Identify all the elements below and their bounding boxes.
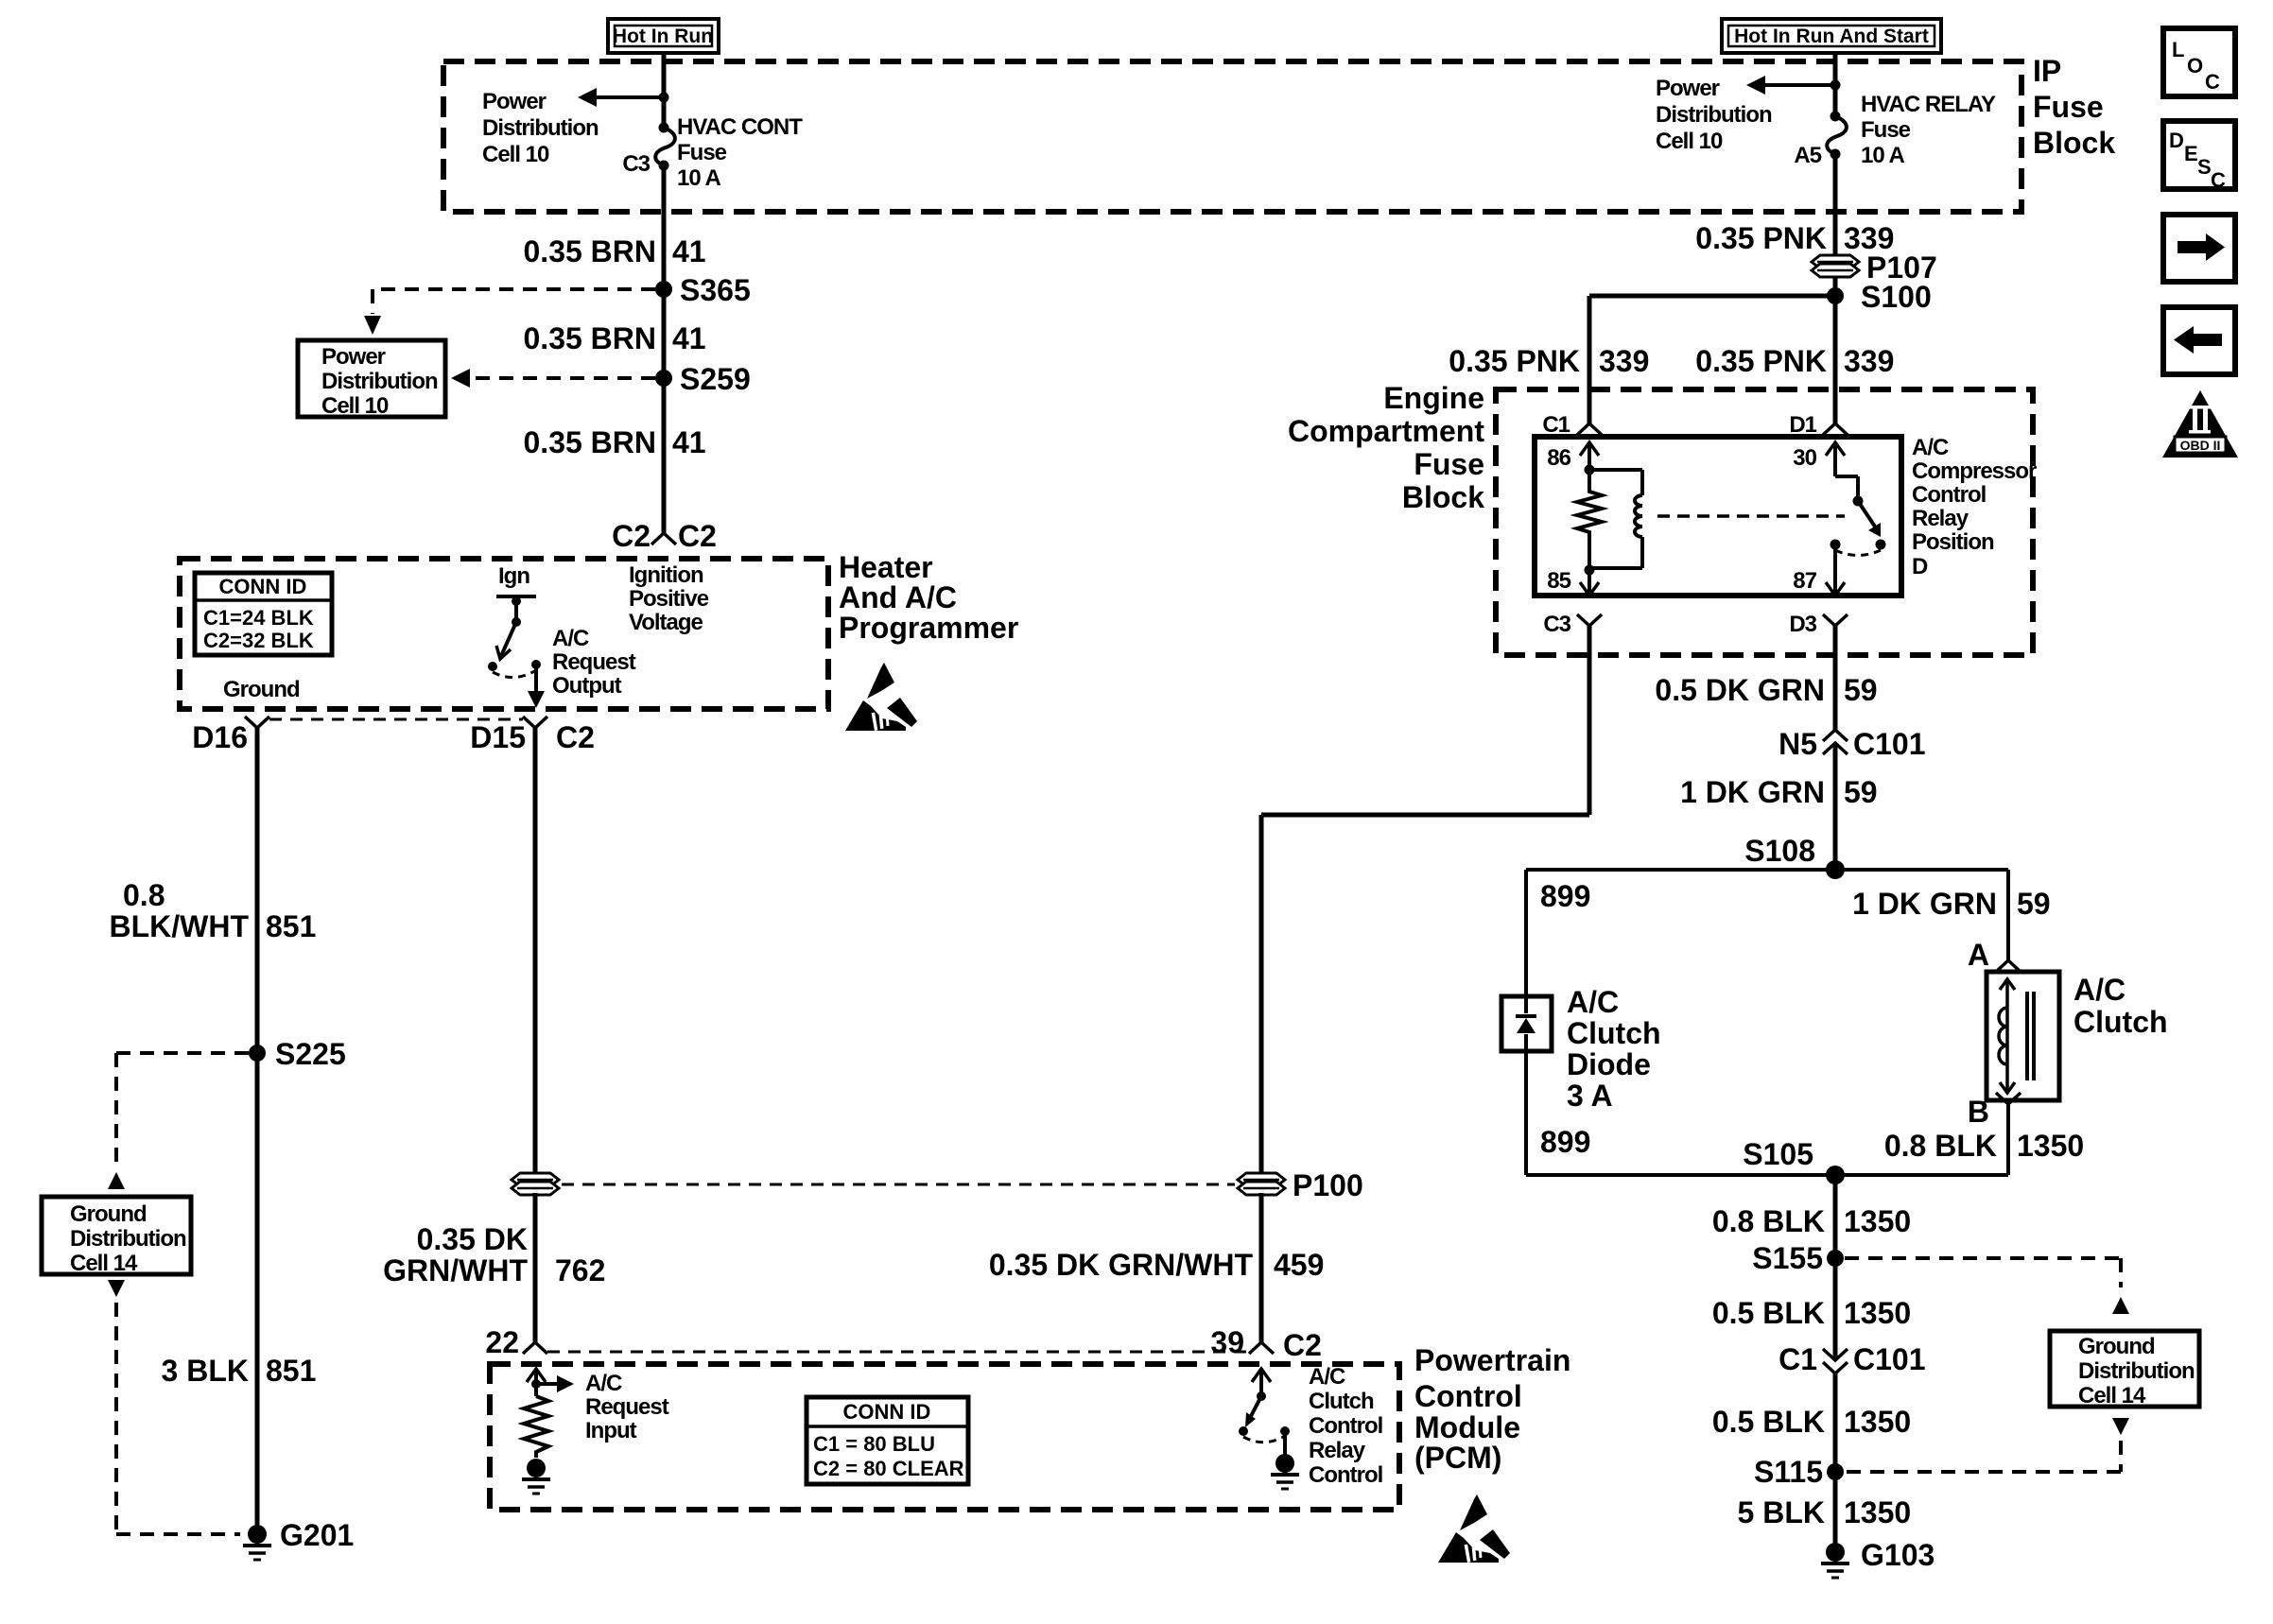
svg-text:3 A: 3 A xyxy=(1567,1079,1613,1113)
dashed connector link P100 xyxy=(562,1183,1235,1186)
label HVAC CONT Fuse 10 A xyxy=(677,114,803,191)
svg-text:Fuse: Fuse xyxy=(677,140,727,165)
svg-text:BLK/WHT: BLK/WHT xyxy=(109,909,249,943)
label 0.8 BLK/WHT 851 xyxy=(109,878,316,943)
svg-text:A/C: A/C xyxy=(1567,985,1619,1019)
svg-text:851: 851 xyxy=(266,1354,316,1388)
pin 86 xyxy=(1547,442,1599,471)
svg-text:Ignition: Ignition xyxy=(629,562,703,588)
svg-text:Distribution: Distribution xyxy=(482,115,599,141)
terminal 39 C2 xyxy=(1210,1325,1322,1362)
svg-text:GRN/WHT: GRN/WHT xyxy=(383,1253,528,1287)
svg-text:Ground: Ground xyxy=(70,1201,147,1227)
svg-text:C2 = 80 CLEAR: C2 = 80 CLEAR xyxy=(813,1457,964,1480)
label 0.8 BLK 1350 clutch xyxy=(1884,1129,2084,1163)
svg-text:Power: Power xyxy=(482,89,547,114)
svg-text:899: 899 xyxy=(1540,1125,1590,1159)
label A/C Compressor Control Relay Position D xyxy=(1912,435,2037,579)
PCM dashed box xyxy=(490,1364,1399,1510)
wire clutch loop top xyxy=(1526,868,2008,872)
label 0.5 BLK 1350 (1) xyxy=(1712,1296,1911,1330)
svg-text:D: D xyxy=(2169,129,2184,152)
svg-text:0.5 DK GRN: 0.5 DK GRN xyxy=(1655,673,1825,707)
svg-text:S365: S365 xyxy=(680,273,751,307)
terminal C1 xyxy=(1542,412,1602,438)
svg-text:0.8 BLK: 0.8 BLK xyxy=(1712,1204,1825,1238)
svg-text:1350: 1350 xyxy=(1844,1495,1911,1529)
ground A/C request input xyxy=(522,1459,550,1494)
terminal A xyxy=(1968,938,2021,972)
splice S115 xyxy=(1754,1455,1844,1489)
svg-text:D: D xyxy=(1912,554,1928,579)
connector P107 xyxy=(1812,251,1937,285)
label 1 DK GRN 59 xyxy=(1680,775,1878,809)
label Engine Compartment Fuse Block xyxy=(1288,381,1484,514)
label 0.35 PNK 339 right xyxy=(1695,344,1894,378)
svg-text:Request: Request xyxy=(585,1394,669,1420)
wire P100 to PCM 39 xyxy=(1259,1193,1264,1342)
svg-text:P100: P100 xyxy=(1293,1168,1363,1202)
label Heater And A/C Programmer xyxy=(839,550,1018,645)
wire A/C request output with arrow xyxy=(528,665,545,708)
wire D15 to connector xyxy=(533,728,538,1183)
wire to PCM 22 xyxy=(533,1193,538,1342)
svg-text:Cell 14: Cell 14 xyxy=(70,1251,138,1276)
label A/C Clutch Diode 3 A xyxy=(1567,985,1661,1113)
wire ground 851 xyxy=(255,728,260,1534)
svg-text:0.8: 0.8 xyxy=(123,878,165,912)
icon DESC box xyxy=(2163,121,2235,192)
icon OBD II triangle xyxy=(2162,390,2238,458)
svg-text:C101: C101 xyxy=(1853,727,1926,761)
svg-text:5 BLK: 5 BLK xyxy=(1738,1495,1825,1529)
svg-text:HVAC RELAY: HVAC RELAY xyxy=(1861,92,1996,117)
node power feed junction xyxy=(659,93,669,103)
svg-text:Compartment: Compartment xyxy=(1288,414,1484,448)
wire D3 down xyxy=(1833,626,1838,730)
svg-text:Block: Block xyxy=(2033,126,2115,160)
svg-text:B: B xyxy=(1968,1095,1989,1129)
svg-text:0.35 BRN: 0.35 BRN xyxy=(524,425,657,459)
svg-text:Cell 14: Cell 14 xyxy=(2078,1383,2146,1408)
svg-text:39: 39 xyxy=(1210,1325,1244,1359)
splice S155 xyxy=(1752,1241,1844,1275)
svg-text:0.35 PNK: 0.35 PNK xyxy=(1695,221,1827,255)
svg-text:D16: D16 xyxy=(192,720,248,754)
svg-text:A/C: A/C xyxy=(1309,1364,1345,1390)
svg-text:(PCM): (PCM) xyxy=(1414,1441,1501,1475)
terminal 22 xyxy=(485,1325,547,1359)
svg-text:C: C xyxy=(2205,70,2220,94)
Heater And A/C Programmer dashed box xyxy=(180,559,828,709)
wire hot in run and start feed xyxy=(1833,53,1838,116)
svg-text:85: 85 xyxy=(1547,568,1570,594)
wire power distribution arrow right xyxy=(1746,76,1835,95)
ground A/C clutch control xyxy=(1271,1431,1299,1489)
svg-text:41: 41 xyxy=(672,425,706,459)
relay switch arm xyxy=(1858,501,1881,537)
svg-text:1 DK GRN: 1 DK GRN xyxy=(1680,775,1825,809)
label Power Distribution Cell 10 (top right) xyxy=(1656,76,1772,154)
svg-text:Input: Input xyxy=(585,1418,637,1443)
svg-text:Cell 10: Cell 10 xyxy=(321,393,389,419)
svg-text:1350: 1350 xyxy=(2017,1129,2084,1163)
wire S365 link dashed xyxy=(364,289,655,335)
svg-text:HVAC CONT: HVAC CONT xyxy=(677,114,803,140)
coil relay xyxy=(1589,470,1642,568)
wire hot in run feed xyxy=(662,53,667,128)
terminal D16 xyxy=(192,717,269,754)
splice S365 xyxy=(655,273,751,307)
svg-text:59: 59 xyxy=(1844,673,1878,707)
svg-text:C1=24 BLK: C1=24 BLK xyxy=(203,606,314,630)
svg-text:Compressor: Compressor xyxy=(1912,458,2037,484)
label 0.35 PNK 339 left xyxy=(1449,344,1649,378)
svg-text:CONN ID: CONN ID xyxy=(843,1400,931,1424)
svg-text:Clutch: Clutch xyxy=(1567,1016,1661,1050)
wire diode down xyxy=(1524,1051,1528,1175)
svg-text:C101: C101 xyxy=(1853,1342,1926,1376)
switch A/C clutch control relay control xyxy=(1239,1369,1290,1443)
label 0.35 PNK 339 top xyxy=(1695,221,1894,255)
wire power distribution arrow xyxy=(578,88,664,107)
svg-text:0.35 PNK: 0.35 PNK xyxy=(1695,344,1827,378)
svg-text:Positive: Positive xyxy=(629,586,709,612)
label 0.35 BRN 41 (2) xyxy=(524,321,706,355)
relay contacts and position arc xyxy=(1831,540,1886,556)
A/C clutch diode box xyxy=(1501,996,1552,1051)
svg-text:IP: IP xyxy=(2033,54,2061,88)
Ground Distribution Cell 14 box left xyxy=(42,1197,191,1276)
svg-text:S259: S259 xyxy=(680,362,751,396)
label 0.8 BLK 1350 xyxy=(1712,1204,1911,1238)
svg-text:Relay: Relay xyxy=(1912,506,1969,531)
svg-text:41: 41 xyxy=(672,321,706,355)
svg-text:Diode: Diode xyxy=(1567,1047,1651,1081)
svg-text:Voltage: Voltage xyxy=(629,610,703,635)
fuse A5 HVAC RELAY 10A xyxy=(1827,112,1847,160)
label A/C Request Input xyxy=(585,1371,669,1443)
svg-text:C2: C2 xyxy=(556,720,595,754)
wire S155 link dashed xyxy=(1845,1258,2129,1314)
svg-text:D3: D3 xyxy=(1789,612,1816,637)
label IP Fuse Block xyxy=(2033,54,2115,160)
svg-text:A/C: A/C xyxy=(1912,435,1949,460)
svg-text:Engine: Engine xyxy=(1383,381,1484,415)
svg-text:Relay: Relay xyxy=(1309,1438,1366,1463)
Hot In Run And Start flag box xyxy=(1722,19,1941,53)
label Powertrain Control Module (PCM) xyxy=(1414,1343,1570,1475)
svg-text:A: A xyxy=(1968,938,1989,972)
switch A/C request output xyxy=(488,596,541,678)
splice S108 xyxy=(1744,834,1845,879)
wire C3 to P100 riser xyxy=(1261,626,1589,1174)
Power Distribution Cell 10 box xyxy=(298,340,445,419)
connector P100 xyxy=(1238,1168,1363,1202)
label 0.35 DK GRN/WHT 762 xyxy=(383,1222,605,1287)
label 0.35 DK GRN/WHT 459 xyxy=(989,1248,1325,1282)
dashed relay actuation link xyxy=(1657,514,1845,518)
svg-text:339: 339 xyxy=(1599,344,1649,378)
pin 87 xyxy=(1793,544,1845,596)
svg-text:C1: C1 xyxy=(1542,412,1570,438)
svg-text:Programmer: Programmer xyxy=(839,611,1018,645)
svg-text:0.35 BRN: 0.35 BRN xyxy=(524,234,657,268)
svg-text:1350: 1350 xyxy=(1844,1405,1911,1439)
svg-text:0.35 DK: 0.35 DK xyxy=(417,1222,528,1256)
ESD symbol heater xyxy=(845,663,917,731)
icon LOC box xyxy=(2163,28,2235,96)
svg-text:A/C: A/C xyxy=(585,1371,622,1396)
terminal D15 C2 xyxy=(470,717,595,754)
svg-text:10 A: 10 A xyxy=(677,165,720,191)
svg-text:C3: C3 xyxy=(1543,612,1570,637)
resistor A/C request input xyxy=(524,1396,548,1458)
pin 30 xyxy=(1793,442,1845,476)
svg-text:C: C xyxy=(2211,168,2226,192)
CONN ID table PCM xyxy=(807,1397,968,1484)
label 0.5 DK GRN 59 xyxy=(1655,673,1877,707)
svg-text:0.5 BLK: 0.5 BLK xyxy=(1712,1296,1825,1330)
svg-text:Fuse: Fuse xyxy=(1861,117,1911,143)
svg-text:Block: Block xyxy=(1402,480,1484,514)
wire relay switch jog xyxy=(1835,476,1864,507)
svg-text:762: 762 xyxy=(555,1253,605,1287)
svg-text:CONN ID: CONN ID xyxy=(219,575,307,598)
splice S100 xyxy=(1827,280,1932,314)
svg-text:D1: D1 xyxy=(1789,412,1816,438)
splice S105 xyxy=(1743,1137,1845,1184)
svg-text:22: 22 xyxy=(485,1325,519,1359)
resistor relay xyxy=(1577,470,1602,570)
svg-text:Fuse: Fuse xyxy=(2033,90,2104,124)
svg-text:L: L xyxy=(2172,38,2184,61)
svg-text:D15: D15 xyxy=(470,720,526,754)
svg-text:S108: S108 xyxy=(1744,834,1815,868)
svg-text:Request: Request xyxy=(552,649,636,675)
svg-text:Control: Control xyxy=(1414,1379,1522,1413)
svg-text:Hot In Run And Start: Hot In Run And Start xyxy=(1734,26,1929,47)
splice S225 xyxy=(249,1037,346,1071)
svg-text:86: 86 xyxy=(1547,445,1570,471)
wire 41 brn run xyxy=(662,165,667,533)
svg-text:59: 59 xyxy=(1844,775,1878,809)
Engine Compartment Fuse Block dashed box xyxy=(1496,389,2033,655)
svg-text:And A/C: And A/C xyxy=(839,580,957,614)
svg-text:Distribution: Distribution xyxy=(70,1226,186,1252)
label HVAC RELAY Fuse 10 A xyxy=(1861,92,1996,168)
wire C101 to S108 xyxy=(1833,743,1838,870)
label 1 DK GRN 59 clutch xyxy=(1852,887,2051,921)
label 0.35 BRN 41 (3) xyxy=(524,425,706,459)
svg-text:0.35 PNK: 0.35 PNK xyxy=(1449,344,1580,378)
svg-text:Output: Output xyxy=(552,673,622,699)
svg-text:S: S xyxy=(2197,155,2212,179)
svg-text:C2=32 BLK: C2=32 BLK xyxy=(203,629,314,652)
A/C request input arrow xyxy=(527,1369,574,1396)
svg-text:0.5 BLK: 0.5 BLK xyxy=(1712,1405,1825,1439)
wire S259 link dashed xyxy=(451,369,655,388)
svg-text:A5: A5 xyxy=(1794,143,1821,168)
IP fuse block dashed box xyxy=(443,61,2021,212)
svg-text:Ground: Ground xyxy=(2078,1334,2155,1359)
A/C clutch coil and plates xyxy=(1999,979,2034,1093)
node relay coil bottom xyxy=(1585,565,1595,576)
label 0.5 BLK 1350 (2) xyxy=(1712,1405,1911,1439)
label A/C Clutch xyxy=(2073,973,2168,1039)
svg-text:Control: Control xyxy=(1309,1413,1382,1439)
pin 85 xyxy=(1547,568,1599,596)
wire C101 to S115 xyxy=(1833,1373,1838,1552)
svg-text:S155: S155 xyxy=(1752,1241,1823,1275)
svg-text:Module: Module xyxy=(1414,1410,1520,1444)
svg-text:Powertrain: Powertrain xyxy=(1414,1343,1570,1377)
wire loop right drop xyxy=(2006,870,2010,960)
ESD symbol PCM xyxy=(1438,1494,1510,1563)
svg-text:30: 30 xyxy=(1793,445,1816,471)
svg-text:1350: 1350 xyxy=(1844,1296,1911,1330)
svg-text:Ground: Ground xyxy=(223,677,300,702)
terminal D1 xyxy=(1789,412,1848,438)
svg-text:C1: C1 xyxy=(1778,1342,1817,1376)
connector pass-through middle left xyxy=(512,1173,559,1195)
svg-text:3 BLK: 3 BLK xyxy=(162,1354,249,1388)
node power feed junction right xyxy=(1831,80,1841,91)
fuse C3 HVAC CONT 10A xyxy=(655,123,675,171)
svg-text:Control: Control xyxy=(1309,1462,1382,1488)
svg-text:59: 59 xyxy=(2017,887,2051,921)
svg-text:Hot In Run: Hot In Run xyxy=(613,26,713,47)
terminal B xyxy=(1968,1093,2021,1129)
svg-text:Heater: Heater xyxy=(839,550,933,584)
svg-text:Distribution: Distribution xyxy=(321,369,438,394)
label A/C Request Output xyxy=(552,626,636,699)
svg-text:0.8 BLK: 0.8 BLK xyxy=(1884,1129,1997,1163)
svg-text:S105: S105 xyxy=(1743,1137,1813,1171)
svg-text:G103: G103 xyxy=(1861,1538,1935,1572)
svg-text:S225: S225 xyxy=(275,1037,346,1071)
relay box xyxy=(1535,437,1901,596)
wire S225 link dashed xyxy=(108,1053,249,1189)
label Ignition Positive Voltage xyxy=(629,562,709,635)
CONN ID table heater xyxy=(195,573,332,655)
svg-text:A/C: A/C xyxy=(552,626,589,651)
svg-text:1 DK GRN: 1 DK GRN xyxy=(1852,887,1997,921)
Hot In Run flag box xyxy=(608,19,719,53)
svg-text:E: E xyxy=(2184,142,2198,165)
wire ground dist link dashed bottom right xyxy=(1845,1418,2129,1472)
svg-text:Cell 10: Cell 10 xyxy=(1656,129,1723,154)
svg-text:Distribution: Distribution xyxy=(2078,1358,2195,1384)
connector N5 C101 xyxy=(1778,727,1925,761)
svg-text:459: 459 xyxy=(1274,1248,1324,1282)
node relay coil top xyxy=(1585,465,1595,475)
svg-text:Distribution: Distribution xyxy=(1656,102,1772,128)
splice S259 xyxy=(655,362,751,396)
svg-text:1350: 1350 xyxy=(1844,1204,1911,1238)
svg-text:0.35 BRN: 0.35 BRN xyxy=(524,321,657,355)
label Power Distribution Cell 10 (top left) xyxy=(482,89,599,167)
svg-text:Ign: Ign xyxy=(498,563,529,589)
svg-text:10 A: 10 A xyxy=(1861,143,1904,168)
label A/C Clutch Control Relay Control xyxy=(1309,1364,1382,1488)
svg-text:339: 339 xyxy=(1844,344,1894,378)
wire loop left drop xyxy=(1524,870,1528,996)
svg-text:C2: C2 xyxy=(612,519,651,553)
terminal C2 C2 heater xyxy=(612,519,717,553)
A/C clutch box xyxy=(1987,972,2059,1100)
terminal C3 xyxy=(1543,612,1602,637)
ground G103 xyxy=(1821,1538,1935,1578)
svg-text:Clutch: Clutch xyxy=(2073,1005,2168,1039)
svg-text:OBD II: OBD II xyxy=(2180,438,2221,453)
connector row dashed line D16-D15 xyxy=(269,718,523,721)
svg-text:Fuse: Fuse xyxy=(1414,447,1484,481)
wire B down xyxy=(2006,1104,2010,1175)
icon forward arrow box xyxy=(2163,215,2235,282)
svg-text:C2: C2 xyxy=(678,519,717,553)
wire clutch loop bottom xyxy=(1526,1173,2008,1177)
wire S105 down xyxy=(1833,1175,1838,1360)
svg-text:41: 41 xyxy=(672,234,706,268)
label 5 BLK 1350 xyxy=(1738,1495,1912,1529)
label 3 BLK 851 xyxy=(162,1354,317,1388)
label 0.35 BRN 41 (1) xyxy=(524,234,706,268)
svg-text:Power: Power xyxy=(1656,76,1720,101)
wire S100 branch left xyxy=(1589,296,1835,423)
svg-text:C1 = 80 BLU: C1 = 80 BLU xyxy=(813,1432,935,1456)
svg-text:N5: N5 xyxy=(1778,727,1817,761)
svg-text:O: O xyxy=(2187,54,2203,78)
svg-text:Power: Power xyxy=(321,344,386,370)
Ground Distribution Cell 14 box right xyxy=(2050,1331,2199,1408)
svg-text:851: 851 xyxy=(266,909,316,943)
ground G201 xyxy=(243,1518,354,1560)
svg-text:Position: Position xyxy=(1912,529,1994,555)
connector C1 C101 xyxy=(1778,1342,1925,1376)
icon back arrow box xyxy=(2163,307,2235,374)
svg-text:899: 899 xyxy=(1540,879,1590,913)
wire ground dist link dashed bottom xyxy=(108,1280,240,1534)
svg-text:0.35 DK GRN/WHT: 0.35 DK GRN/WHT xyxy=(989,1248,1254,1282)
svg-text:A/C: A/C xyxy=(2073,973,2126,1007)
terminal D3 xyxy=(1789,612,1848,637)
wire fuse to P107 xyxy=(1833,154,1838,296)
wire S100 to D1 xyxy=(1833,296,1838,423)
svg-text:87: 87 xyxy=(1793,568,1816,594)
svg-text:Clutch: Clutch xyxy=(1309,1389,1374,1414)
svg-text:C3: C3 xyxy=(622,151,650,177)
svg-text:S115: S115 xyxy=(1754,1455,1823,1489)
svg-text:S100: S100 xyxy=(1861,280,1932,314)
svg-text:G201: G201 xyxy=(280,1518,354,1552)
svg-text:C2: C2 xyxy=(1283,1328,1322,1362)
connector row dashed line PCM xyxy=(547,1351,1246,1354)
svg-text:Cell 10: Cell 10 xyxy=(482,142,549,167)
svg-text:Control: Control xyxy=(1912,482,1986,508)
